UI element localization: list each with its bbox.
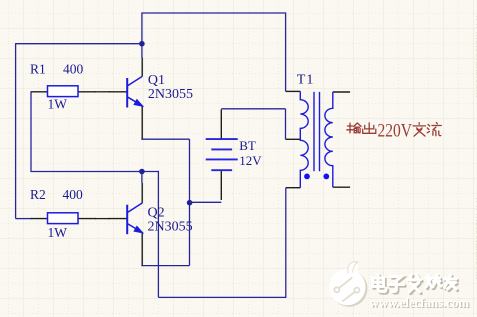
wire y=171.5 from R1 elbow to right bend <box>30 171 158 173</box>
resistor R2 body <box>48 213 79 224</box>
transformer T1 primary winding (left) <box>300 91 308 187</box>
wire right vertical up to T1 bottom-left pin <box>285 188 287 298</box>
net label output 220V AC (red) : 输出220V交流 <box>347 123 441 136</box>
battery BT negative pin <box>220 170 222 200</box>
wire battery negative to bus <box>190 201 222 203</box>
transistor Q2 base pin <box>109 218 127 220</box>
transistor Q1 symbol <box>127 76 143 107</box>
resistor R1 body <box>48 86 79 97</box>
watermark logo elecfans <box>329 262 367 307</box>
wire battery positive to center tap <box>221 109 285 140</box>
wire R1 left elbow down <box>30 92 32 172</box>
transistor Q1 collector pin <box>141 58 143 77</box>
svg-text:1W: 1W <box>48 96 68 111</box>
char 输 <box>347 123 361 133</box>
svg-text:1W: 1W <box>48 225 68 240</box>
svg-text:Q1: Q1 <box>148 73 165 88</box>
svg-text:220V: 220V <box>378 120 413 141</box>
svg-text:400: 400 <box>63 187 84 202</box>
resistor R1 pins <box>31 91 96 93</box>
transistor Q1 base pin <box>109 91 127 93</box>
svg-text:T1: T1 <box>297 73 315 88</box>
wire top horizontal (Q1 collector to T1 top-left) <box>142 12 286 14</box>
wire Q2 emitter horizontal <box>141 265 189 267</box>
transistor Q2 emitter pin <box>141 232 143 265</box>
transformer polarity dot right <box>323 174 329 180</box>
node junction dot J2 on Q2 collector <box>139 169 145 175</box>
char 流 <box>427 123 441 136</box>
wire R1 to Q1 base <box>95 91 110 93</box>
transistor Q1 emitter pin <box>141 106 143 139</box>
svg-text:www.elecfans.com: www.elecfans.com <box>370 296 470 310</box>
transformer T1 secondary winding (right) <box>325 92 333 187</box>
svg-text:R2: R2 <box>30 187 46 202</box>
watermark text 电子发烧友 <box>374 276 458 294</box>
wire left rail vertical x=15.6 <box>15 43 17 219</box>
transformer polarity dot left <box>304 174 310 180</box>
wire R2 to Q2 base <box>95 218 110 220</box>
svg-text:R1: R1 <box>30 61 46 76</box>
wire bottom rail <box>158 296 285 298</box>
transformer T1 pin bottom-left <box>286 187 301 189</box>
resistor R2 pins <box>31 218 96 220</box>
svg-text:2N3055: 2N3055 <box>148 87 193 102</box>
svg-text:12V: 12V <box>239 153 262 168</box>
svg-text:www.elecfans.com: www.elecfans.com <box>473 14 477 98</box>
wire T1 top-left feed vertical x=285.6 <box>285 12 287 91</box>
svg-text:2N3055: 2N3055 <box>148 220 193 235</box>
transformer T1 pin top-right <box>333 91 350 93</box>
transistor Q2 collector pin <box>141 183 143 203</box>
svg-text:www.elecfans.com: www.elecfans.com <box>473 196 477 280</box>
svg-text:BT: BT <box>239 138 256 153</box>
watermark text 电子发烧友 white layer <box>373 274 457 292</box>
char 交 <box>413 123 426 136</box>
node junction dot J3 battery negative <box>187 200 193 206</box>
battery BT positive pin <box>220 109 222 139</box>
wire Q2 collector stub <box>141 172 143 184</box>
transformer T1 core lines <box>314 92 320 171</box>
svg-text:400: 400 <box>63 61 84 76</box>
transformer T1 pin bottom-right <box>333 186 350 188</box>
node junction dot J1 on Q1 collector <box>139 41 145 47</box>
transistor Q2 symbol <box>127 203 143 234</box>
wire vertical x=141.9 top to collector pin <box>141 12 143 57</box>
wire Q1 emitter horizontal <box>141 138 189 140</box>
wire vertical x=158.4 down to bottom rail <box>157 171 159 298</box>
wire y=43.7 from left rail to Q1 collector node <box>16 43 142 45</box>
transformer T1 pin top-left <box>286 90 301 92</box>
svg-text:Q2: Q2 <box>148 205 165 220</box>
wire left rail to R2 <box>16 218 32 220</box>
wire vertical x=189.5 emitter bus <box>189 139 191 265</box>
battery BT plates <box>206 139 238 170</box>
transformer T1 pin center tap <box>286 138 301 140</box>
char 出 <box>363 123 376 133</box>
